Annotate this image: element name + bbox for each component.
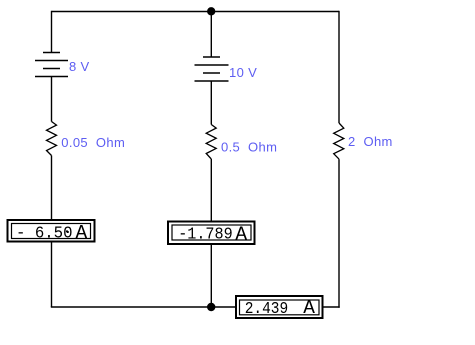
svg-text:10 V: 10 V [229, 65, 257, 80]
wire top bus from left branch to right branch [52, 11, 340, 13]
svg-text:8 V: 8 V [69, 59, 90, 74]
wire middle branch ammeter to bottom node [210, 245, 212, 307]
resistor R2 0.5 Ohm [206, 125, 216, 160]
svg-text:0.5 Ohm: 0.5 Ohm [221, 139, 277, 154]
wire middle branch resistor to ammeter [210, 159, 212, 221]
svg-text:- 6.50: - 6.50 [16, 223, 73, 242]
svg-text:2.439: 2.439 [245, 299, 289, 318]
battery V1 8V [35, 53, 68, 77]
wire left branch ammeter to bottom bus [51, 243, 53, 308]
svg-text:A: A [76, 222, 88, 244]
ammeter M1 reading - 6.50 [16, 223, 73, 242]
wire left branch battery to resistor [51, 77, 53, 122]
wire right branch resistor to bottom corner [338, 159, 340, 308]
node top junction dot [207, 7, 215, 15]
wire bottom bus left segment to ammeter M3 [51, 306, 235, 308]
wire left branch top segment [51, 11, 53, 53]
ammeter M1 box [8, 220, 95, 242]
battery V2 10V [195, 57, 229, 81]
svg-text:0.05 Ohm: 0.05 Ohm [61, 135, 125, 150]
ammeter M2 box [168, 222, 255, 245]
svg-text:2 Ohm: 2 Ohm [348, 134, 393, 149]
svg-text:-1.789: -1.789 [178, 224, 233, 243]
wire bottom bus right segment to ammeter M3 right edge [324, 306, 340, 308]
wire middle branch top segment [210, 12, 212, 58]
wire right branch top segment [338, 11, 340, 123]
resistor R1 0.05 Ohm [47, 122, 57, 156]
svg-text:A: A [303, 297, 315, 319]
wire left branch resistor to ammeter [51, 156, 53, 220]
svg-text:A: A [235, 224, 247, 246]
node bottom junction dot [207, 303, 215, 311]
wire middle branch battery to resistor [210, 81, 212, 125]
resistor R3 2 Ohm [334, 123, 344, 159]
ammeter M3 box [236, 296, 323, 318]
